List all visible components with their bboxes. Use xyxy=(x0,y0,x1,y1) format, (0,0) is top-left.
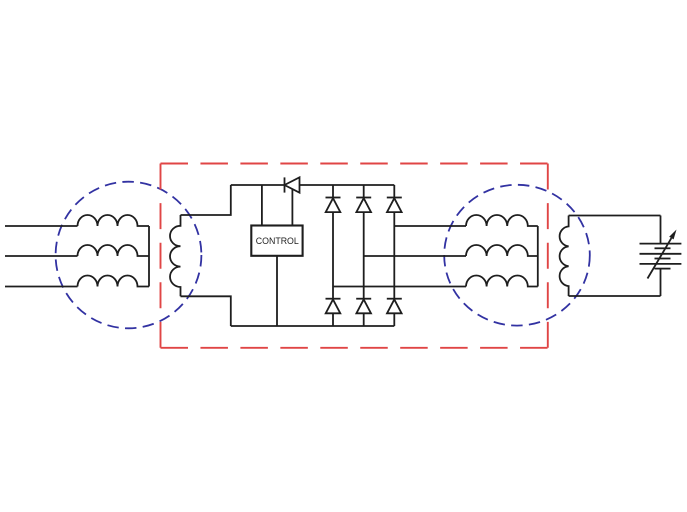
battery B1 short plate 3 xyxy=(655,268,671,270)
wire phase B bridge to right machine xyxy=(364,255,466,257)
wire from battery negative xyxy=(660,269,662,296)
wire star-point connector right xyxy=(537,226,539,287)
wire phase A input xyxy=(5,225,78,227)
winding L1c (stator phase C, left machine) xyxy=(78,276,150,287)
wire star-point connector left xyxy=(148,226,150,287)
wire bridge leg 2 top xyxy=(363,185,365,198)
diode D2 (upper, leg 2) xyxy=(356,198,371,213)
wire gate lead to control box xyxy=(291,189,293,225)
converter enclosure (red dashed rectangle) xyxy=(161,164,548,348)
battery B1 short plate 2 xyxy=(655,258,671,260)
wire phase C input xyxy=(5,286,78,288)
diode D5 (lower, leg 2) xyxy=(356,299,371,314)
wire bridge leg 1 middle xyxy=(332,212,334,299)
battery B1 (variable exciter source) long plate 1 xyxy=(640,243,682,245)
diode D4 (lower, leg 1) xyxy=(326,299,341,314)
winding L4 (main field coil, vertical) xyxy=(560,216,569,297)
wire phase C bridge to right machine xyxy=(333,286,466,288)
wire L4 bottom lead xyxy=(569,295,661,297)
wire L4 top lead xyxy=(569,215,661,217)
wire control tap to top rail xyxy=(261,185,263,226)
machine boundary right (blue dashed circle) xyxy=(444,185,590,326)
wire bottom rail xyxy=(231,325,394,327)
battery B1 variability arrow xyxy=(648,230,677,279)
machine boundary left (blue dashed circle) xyxy=(56,182,202,329)
wire phase A bridge to right machine xyxy=(394,225,466,227)
wire bridge leg 3 top (rail corner) xyxy=(393,185,395,198)
wire L2 bottom lead to bottom rail xyxy=(181,296,231,326)
wire bridge leg 2 middle xyxy=(363,212,365,299)
winding L3b (armature phase B, right machine) xyxy=(466,245,538,256)
battery B1 short plate 1 xyxy=(655,247,671,249)
winding L1a (stator phase A, left machine) xyxy=(78,215,150,226)
wire bridge leg 3 bottom xyxy=(393,313,395,326)
diode D6 (lower, leg 3) xyxy=(387,299,402,314)
wire bridge leg 1 top xyxy=(332,185,334,198)
wire bridge leg 2 bottom xyxy=(363,313,365,326)
wire bridge leg 1 bottom xyxy=(332,313,334,326)
winding L1b (stator phase B, left machine) xyxy=(78,245,150,256)
wire to battery positive xyxy=(660,216,662,244)
thyristor Q1 (triangle, pointing left) xyxy=(285,177,300,192)
battery B1 long plate 2 xyxy=(640,253,682,255)
wire bridge leg 3 middle xyxy=(393,212,395,299)
thyristor Q1 (cathode bar) xyxy=(284,177,286,192)
wire top rail left segment xyxy=(231,184,285,186)
wire control box to bottom rail xyxy=(276,256,278,326)
winding L2 (exciter field coil, vertical) xyxy=(170,215,181,296)
wire phase B input xyxy=(5,255,78,257)
diode D3 (upper, leg 3) xyxy=(387,198,402,213)
svg-text:CONTROL: CONTROL xyxy=(256,236,299,246)
diode D1 (upper, leg 1) xyxy=(326,198,341,213)
wire top rail right segment xyxy=(300,184,395,186)
wire L2 top lead to top rail xyxy=(181,185,231,215)
winding L3a (armature phase A, right machine) xyxy=(466,215,538,226)
battery B1 long plate 3 xyxy=(640,263,682,265)
control box U1 xyxy=(251,226,302,256)
winding L3c (armature phase C, right machine) xyxy=(466,275,538,286)
